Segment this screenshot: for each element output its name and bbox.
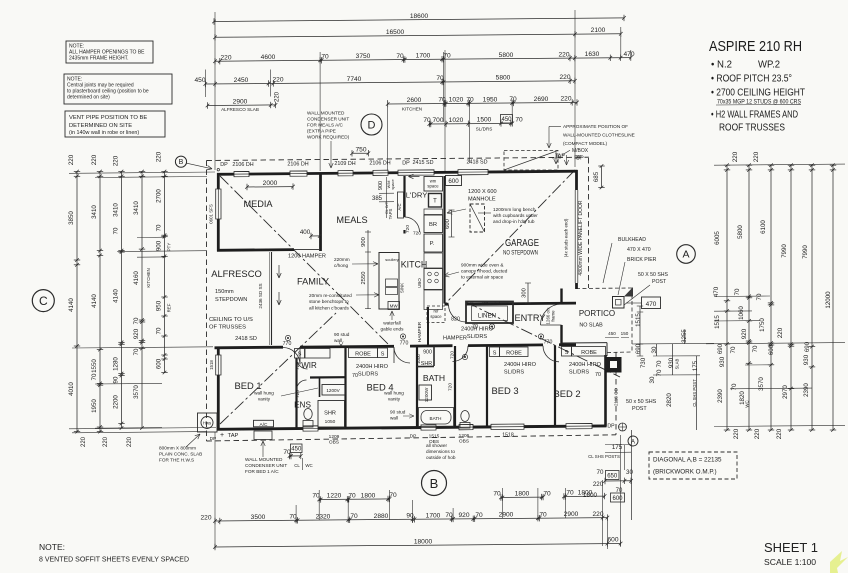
- svg-text:1550: 1550: [91, 359, 98, 373]
- svg-text:+: +: [220, 432, 224, 439]
- window 2106 DH top 4: [373, 170, 388, 175]
- bed1 left window: [216, 355, 221, 375]
- svg-text:920: 920: [458, 512, 469, 519]
- svg-text:and drop-in l’dry tub: and drop-in l’dry tub: [493, 219, 535, 224]
- left dimension column A (220/3850/220/4140/4010): [74, 170, 80, 434]
- left dimension column D (3410/4160/70/920/70/3570): [139, 170, 145, 430]
- svg-text:5800: 5800: [496, 75, 511, 82]
- ens door arc: [297, 380, 307, 390]
- svg-text:S: S: [565, 350, 569, 356]
- svg-text:70: 70: [475, 512, 483, 519]
- svg-text:220: 220: [776, 428, 783, 439]
- svg-text:to external air space: to external air space: [461, 275, 504, 280]
- svg-text:1518: 1518: [502, 433, 514, 439]
- right extension lines: [714, 164, 845, 165]
- svg-text:SLAB: SLAB: [675, 358, 680, 369]
- svg-text:KITCHEN: KITCHEN: [402, 107, 422, 112]
- svg-text:1209: 1209: [329, 434, 340, 440]
- svg-text:6100: 6100: [760, 220, 767, 234]
- svg-text:KITCHEN: KITCHEN: [146, 268, 151, 287]
- svg-text:2106 DH: 2106 DH: [287, 161, 308, 167]
- svg-text:1950: 1950: [91, 399, 98, 413]
- svg-text:space: space: [391, 179, 395, 189]
- svg-text:all shower: all shower: [426, 443, 448, 448]
- svg-text:300: 300: [522, 288, 528, 298]
- svg-text:1515: 1515: [635, 313, 642, 327]
- svg-text:720: 720: [295, 390, 301, 398]
- svg-text:ROBE: ROBE: [506, 350, 522, 356]
- svg-text:220: 220: [559, 74, 570, 81]
- svg-text:GARAGE: GARAGE: [505, 237, 539, 249]
- svg-text:1800: 1800: [515, 491, 530, 498]
- svg-text:1000: 1000: [416, 354, 421, 364]
- svg-text:wall: wall: [334, 338, 342, 343]
- circle B bottom: [422, 471, 447, 496]
- note box 2 central joints: [64, 74, 172, 104]
- mid right cluster lines: [639, 306, 641, 356]
- svg-text:DP: DP: [210, 436, 216, 441]
- svg-text:2700: 2700: [156, 189, 163, 203]
- svg-text:820: 820: [451, 317, 460, 323]
- bath fixtures: [419, 385, 432, 400]
- svg-text:720: 720: [448, 383, 454, 391]
- condenser below wall: [254, 431, 272, 440]
- svg-text:WALL MOUNTED: WALL MOUNTED: [307, 111, 345, 116]
- laundry/meals wall: [403, 176, 405, 217]
- svg-text:70: 70: [539, 511, 547, 518]
- ens/bed4 wall: [344, 347, 346, 428]
- svg-text:CONDENSER UNIT: CONDENSER UNIT: [307, 117, 349, 122]
- svg-text:2550: 2550: [361, 272, 367, 285]
- wir door arc: [297, 358, 308, 369]
- svg-text:BATH: BATH: [423, 373, 445, 383]
- svg-text:70: 70: [321, 53, 329, 60]
- svg-text:DP: DP: [410, 434, 417, 440]
- meals hall door arc: [394, 347, 410, 363]
- svg-text:HAMPER: HAMPER: [443, 336, 467, 342]
- garage right wall bottom: [575, 283, 578, 289]
- svg-text:7740: 7740: [347, 76, 362, 83]
- svg-text:with cupboards under: with cupboards under: [493, 213, 538, 218]
- svg-text:DP: DP: [574, 155, 582, 161]
- S + robe boxes WIR: [295, 349, 305, 359]
- svg-text:2200: 2200: [113, 395, 120, 409]
- window 2109 DH top 3: [338, 171, 353, 176]
- svg-text:720: 720: [405, 225, 411, 233]
- svg-text:FOR THE H.W.S: FOR THE H.W.S: [159, 458, 194, 463]
- right dimension column 5800: [746, 163, 752, 431]
- svg-text:wall: wall: [390, 416, 398, 421]
- svg-text:18000: 18000: [414, 538, 433, 545]
- bed1 door arc: [283, 348, 300, 365]
- svg-text:5800: 5800: [499, 52, 514, 59]
- svg-text:70: 70: [472, 324, 478, 330]
- alfresco right sliding door: [271, 252, 273, 345]
- robe bed2: [562, 347, 572, 357]
- svg-text:70: 70: [436, 75, 444, 82]
- svg-text:900: 900: [156, 240, 163, 251]
- svg-text:930: 930: [719, 356, 726, 367]
- svg-text:2320: 2320: [316, 513, 331, 520]
- svg-text:DETERMINED ON SITE: DETERMINED ON SITE: [69, 123, 132, 129]
- svg-text:720: 720: [450, 351, 456, 359]
- svg-text:1020: 1020: [449, 97, 464, 104]
- svg-text:600: 600: [607, 537, 618, 544]
- wc toilet: [461, 411, 469, 422]
- check diagonal garage down-left: [445, 170, 575, 304]
- svg-text:220: 220: [81, 436, 87, 447]
- svg-text:3410: 3410: [91, 205, 98, 219]
- svg-text:STEPDOWN: STEPDOWN: [215, 297, 247, 303]
- svg-text:MW: MW: [390, 304, 399, 309]
- svg-text:A: A: [682, 249, 689, 261]
- svg-text:2436 SD SS: 2436 SD SS: [258, 283, 263, 308]
- svg-text:90: 90: [406, 513, 414, 520]
- svg-text:CONDENSER UNIT: CONDENSER UNIT: [245, 463, 287, 468]
- svg-text:ALFRESCO SLAB: ALFRESCO SLAB: [221, 107, 259, 112]
- svg-text:canopy r/hood, ducted: canopy r/hood, ducted: [461, 269, 508, 274]
- svg-text:650: 650: [607, 474, 618, 480]
- svg-text:150mm: 150mm: [215, 289, 234, 295]
- svg-text:220: 220: [593, 481, 604, 488]
- svg-text:1700: 1700: [426, 512, 441, 519]
- svg-text:70: 70: [752, 345, 759, 352]
- bottom bracket 70/450 condenser: [288, 453, 303, 460]
- oven/cooktop: [424, 269, 443, 290]
- svg-text:FAMILY: FAMILY: [297, 277, 329, 287]
- svg-text:690: 690: [635, 343, 642, 354]
- svg-text:950: 950: [156, 300, 163, 311]
- 600 rot garage: [451, 210, 453, 237]
- svg-text:NO SLAB: NO SLAB: [579, 323, 603, 329]
- dim 750 eave: [350, 150, 370, 157]
- svg-text:vanity: vanity: [258, 397, 271, 402]
- svg-text:70: 70: [656, 360, 663, 367]
- note box 1 hamper openings: [66, 41, 153, 63]
- svg-text:70: 70: [466, 97, 474, 104]
- svg-text:2880: 2880: [374, 513, 389, 520]
- right dimension column 6005: [724, 163, 730, 431]
- svg-text:900: 900: [423, 350, 432, 356]
- wc/bed3 wall: [486, 346, 488, 428]
- svg-text:DP: DP: [402, 160, 410, 166]
- svg-text:P.: P.: [430, 241, 435, 247]
- svg-text:1800: 1800: [583, 492, 598, 499]
- right dimension column 7990a: [788, 163, 794, 431]
- svg-text:20mm re-constituted: 20mm re-constituted: [309, 293, 352, 298]
- linen walls: [466, 302, 513, 324]
- svg-text:70: 70: [396, 53, 404, 60]
- svg-text:A/C: A/C: [397, 204, 402, 211]
- bed1 left outer wall: [217, 347, 220, 430]
- meals taps/ac dim cluster: [386, 177, 388, 218]
- svg-text:600: 600: [448, 178, 459, 185]
- bottom extension lines: [214, 432, 216, 549]
- svg-text:175: 175: [692, 360, 699, 371]
- dimension row 220/4600/70/3750/70/1700/70/5800/220/1630/470: [213, 54, 632, 64]
- svg-text:7990: 7990: [781, 244, 788, 258]
- svg-text:CEILING TO U/S: CEILING TO U/S: [209, 317, 253, 323]
- dim 685 garage corner: [598, 164, 604, 189]
- svg-text:scullery: scullery: [385, 257, 399, 262]
- svg-text:WC: WC: [745, 400, 750, 407]
- svg-text:30: 30: [626, 469, 633, 476]
- svg-text:SL/DRS: SL/DRS: [358, 372, 378, 378]
- bottom window bed3: [491, 424, 524, 429]
- bottom row 18000/600: [213, 540, 622, 550]
- svg-text:2390: 2390: [717, 389, 724, 403]
- note box 3 vent pipe: [65, 111, 165, 137]
- left dimension column B (220/3410/4440/1550/70/1950/220): [97, 170, 103, 434]
- svg-text:690: 690: [717, 343, 724, 354]
- svg-text:ENTRY: ENTRY: [515, 313, 546, 323]
- svg-text:150: 150: [621, 331, 629, 336]
- svg-text:TAPS: TAPS: [388, 208, 393, 219]
- garage panelift door opening: [574, 190, 576, 283]
- svg-text:POST: POST: [632, 406, 647, 412]
- svg-text:70: 70: [445, 512, 453, 519]
- svg-text:685: 685: [593, 171, 600, 182]
- svg-text:600: 600: [156, 358, 163, 369]
- svg-text:220: 220: [754, 428, 761, 439]
- svg-text:(COMPACT MODEL): (COMPACT MODEL): [563, 141, 608, 146]
- bottom bracket row 70/1800 (bed2): [562, 493, 606, 500]
- check diagonal linen-pier: [466, 302, 620, 377]
- robe bed3: [490, 347, 500, 357]
- svg-text:5800: 5800: [737, 225, 744, 239]
- svg-text:wall hung: wall hung: [384, 391, 404, 396]
- svg-text:0601 SFS: 0601 SFS: [209, 204, 214, 224]
- svg-text:C: C: [39, 294, 48, 308]
- svg-text:DIAGONAL A,B = 22135: DIAGONAL A,B = 22135: [653, 457, 722, 464]
- portico pier top: [613, 297, 625, 309]
- svg-text:220: 220: [220, 54, 231, 61]
- svg-text:90 stud: 90 stud: [390, 410, 406, 415]
- svg-text:WC: WC: [305, 463, 312, 468]
- svg-text:220: 220: [732, 151, 739, 162]
- svg-text:220: 220: [127, 436, 133, 447]
- ens toilet: [304, 409, 312, 420]
- svg-text:70: 70: [731, 383, 738, 390]
- bed4/bath wall: [416, 347, 418, 429]
- svg-text:OF TRUSSES: OF TRUSSES: [209, 325, 246, 331]
- sliding door 2415 SD: [398, 170, 434, 176]
- svg-text:70: 70: [595, 372, 601, 378]
- garage right wall top: [575, 170, 578, 190]
- bed3 door arc: [543, 346, 559, 362]
- svg-text:determined on site): determined on site): [67, 95, 110, 101]
- svg-text:ENS: ENS: [294, 401, 311, 410]
- svg-text:A/C: A/C: [260, 422, 269, 428]
- svg-text:220: 220: [113, 155, 120, 166]
- svg-text:2100: 2100: [591, 27, 606, 34]
- svg-text:70: 70: [133, 348, 140, 355]
- svg-text:SINK: SINK: [400, 283, 405, 293]
- svg-text:400w shelves: 400w shelves: [481, 301, 506, 306]
- outer wall top: [217, 171, 578, 174]
- svg-text:WALL MOUNTED: WALL MOUNTED: [245, 457, 283, 462]
- svg-text:2390: 2390: [803, 383, 810, 397]
- svg-text:ROOF TRUSSES: ROOF TRUSSES: [719, 123, 785, 134]
- svg-text:D: D: [368, 120, 376, 132]
- svg-text:920: 920: [741, 328, 748, 339]
- svg-text:220: 220: [733, 428, 740, 439]
- svg-text:PTY: PTY: [167, 243, 172, 252]
- svg-text:APPROXIMATE POSITION OF: APPROXIMATE POSITION OF: [563, 124, 628, 129]
- bottom main row 220/3500/70/2320/70/2880/90/1700/70/920/70/2900/70/2900/220: [213, 514, 609, 524]
- media dim 400: [309, 233, 321, 240]
- svg-text:space: space: [427, 184, 439, 189]
- HWS unit: [198, 413, 218, 432]
- svg-text:450: 450: [608, 331, 616, 336]
- svg-text:70: 70: [468, 301, 474, 306]
- svg-text:220mm: 220mm: [334, 257, 350, 262]
- svg-text:220: 220: [592, 511, 603, 518]
- top wall corner DP dot: [217, 169, 219, 171]
- svg-text:3500: 3500: [251, 514, 266, 521]
- svg-text:50 x 50 SHS: 50 x 50 SHS: [626, 399, 657, 405]
- fridge space dashed: [427, 306, 445, 323]
- svg-text:Hws: Hws: [203, 421, 211, 426]
- svg-text:2900: 2900: [499, 512, 514, 519]
- sliding door 2418 SD: [458, 169, 488, 174]
- MW box: [388, 302, 400, 310]
- svg-text:DP: DP: [607, 424, 615, 430]
- bottom bracket row 70/1800/70 (bed3): [499, 494, 545, 501]
- svg-text:WP.2: WP.2: [758, 60, 780, 71]
- kitchen bench/garage wall: [443, 176, 445, 304]
- svg-text:BR: BR: [429, 222, 437, 228]
- svg-text:4140: 4140: [91, 294, 98, 308]
- eave dashed outline top: [207, 157, 590, 160]
- svg-text:waterfall: waterfall: [383, 321, 400, 326]
- svg-text:70: 70: [423, 117, 431, 124]
- svg-text:KITCH: KITCH: [401, 260, 427, 270]
- svg-text:70: 70: [113, 227, 120, 234]
- hamper nib wall: [427, 307, 429, 345]
- svg-text:MEDIA: MEDIA: [243, 199, 273, 209]
- svg-text:B: B: [179, 159, 184, 166]
- svg-text:SL/DRS: SL/DRS: [476, 127, 493, 132]
- svg-text:• 2700 CEILING HEIGHT: • 2700 CEILING HEIGHT: [711, 88, 805, 99]
- svg-text:4600: 4600: [261, 54, 276, 61]
- boxed 470 portico: [642, 297, 661, 309]
- svg-text:1700: 1700: [416, 53, 431, 60]
- svg-text:WIR: WIR: [301, 361, 317, 370]
- svg-text:70: 70: [156, 327, 163, 334]
- corridor wall segments: [300, 345, 394, 349]
- svg-text:(4x studs each end): (4x studs each end): [564, 218, 569, 257]
- svg-text:1200 X 600: 1200 X 600: [468, 189, 497, 195]
- svg-text:70: 70: [443, 52, 451, 59]
- svg-text:770: 770: [283, 341, 292, 347]
- svg-text:220: 220: [91, 154, 98, 165]
- svg-text:2109 DH: 2109 DH: [334, 161, 355, 167]
- svg-text:3750: 3750: [356, 53, 371, 60]
- svg-text:OBS: OBS: [329, 440, 339, 446]
- svg-text:BULKHEAD: BULKHEAD: [618, 237, 646, 243]
- right dimension column 12000: [830, 163, 836, 431]
- svg-text:770: 770: [400, 341, 409, 347]
- svg-text:MEALS: MEALS: [336, 215, 367, 225]
- svg-text:PLAIN CONC. SLAB: PLAIN CONC. SLAB: [159, 452, 202, 457]
- svg-text:220: 220: [200, 514, 211, 521]
- kitchen vertical dim 900/2550: [367, 230, 369, 309]
- svg-text:470: 470: [623, 51, 634, 58]
- svg-text:1800: 1800: [361, 492, 376, 499]
- svg-text:16500: 16500: [386, 29, 405, 36]
- svg-text:BED 3: BED 3: [491, 385, 518, 396]
- svg-text:MANHOLE: MANHOLE: [468, 197, 496, 203]
- svg-text:2400H HIRO: 2400H HIRO: [504, 362, 537, 368]
- svg-text:FOR MEALS A/C: FOR MEALS A/C: [307, 123, 344, 128]
- kitchen island bench: [379, 253, 399, 310]
- svg-text:1950: 1950: [483, 96, 498, 103]
- svg-text:70: 70: [566, 490, 574, 497]
- svg-text:800mm X 800mm: 800mm X 800mm: [159, 446, 196, 451]
- svg-text:TAP: TAP: [228, 433, 239, 439]
- svg-text:2400H HIRO: 2400H HIRO: [356, 364, 389, 370]
- bath tub: [419, 408, 454, 427]
- svg-text:SL/DRS: SL/DRS: [504, 370, 524, 376]
- svg-text:900: 900: [361, 237, 367, 247]
- svg-text:BED 2: BED 2: [553, 388, 580, 399]
- svg-text:gable ends: gable ends: [381, 327, 405, 332]
- circle C left: [32, 290, 54, 312]
- left dimension column C (220/3410/70/4140/1280/90/2200/220): [118, 170, 124, 430]
- dimension row 2600/70/1020/70/1950/70/2690/220 kitchen: [386, 99, 579, 107]
- bottom window bath: [421, 425, 436, 430]
- svg-text:1200V: 1200V: [326, 388, 340, 393]
- svg-text:220: 220: [560, 96, 571, 103]
- svg-text:3570: 3570: [133, 385, 140, 399]
- svg-text:NOTE:: NOTE:: [39, 542, 65, 552]
- svg-text:2900: 2900: [564, 511, 579, 518]
- svg-text:470: 470: [646, 301, 657, 308]
- svg-text:385: 385: [372, 196, 383, 202]
- circle D top: [361, 114, 382, 135]
- svg-text:CL SHS POSTS: CL SHS POSTS: [588, 454, 620, 459]
- bed2 right wall: [604, 355, 607, 427]
- svg-text:2106 DH: 2106 DH: [369, 161, 390, 167]
- bed2 pier dark: [606, 357, 622, 373]
- svg-text:SHEET 1: SHEET 1: [764, 540, 818, 555]
- svg-text:2118 OD: 2118 OD: [614, 387, 619, 406]
- svg-text:1200mm long bench: 1200mm long bench: [493, 207, 536, 212]
- svg-text:930: 930: [803, 354, 810, 365]
- svg-text:VENT PIPE POSITION TO BE: VENT PIPE POSITION TO BE: [69, 115, 147, 121]
- svg-text:• N.2: • N.2: [711, 60, 732, 71]
- bed1/ens wall: [295, 358, 297, 429]
- svg-text:70: 70: [597, 469, 604, 476]
- svg-text:175: 175: [612, 444, 623, 451]
- svg-text:7990: 7990: [802, 245, 809, 259]
- hall/wc door arc: [453, 346, 469, 362]
- svg-text:stone benchtops to: stone benchtops to: [309, 299, 349, 304]
- dimension row 16500 / 2100: [213, 31, 622, 41]
- svg-text:900: 900: [378, 181, 384, 190]
- svg-text:DP: DP: [220, 162, 228, 168]
- svg-text:2820: 2820: [666, 393, 673, 407]
- svg-text:1630: 1630: [585, 51, 600, 58]
- svg-text:470 X 470: 470 X 470: [627, 247, 651, 253]
- svg-text:ROBE: ROBE: [581, 350, 597, 356]
- diagonal note box: [649, 452, 737, 479]
- svg-text:450: 450: [291, 447, 302, 453]
- svg-text:70: 70: [350, 513, 358, 520]
- media bottom wall: [217, 248, 294, 251]
- svg-text:70: 70: [493, 491, 501, 498]
